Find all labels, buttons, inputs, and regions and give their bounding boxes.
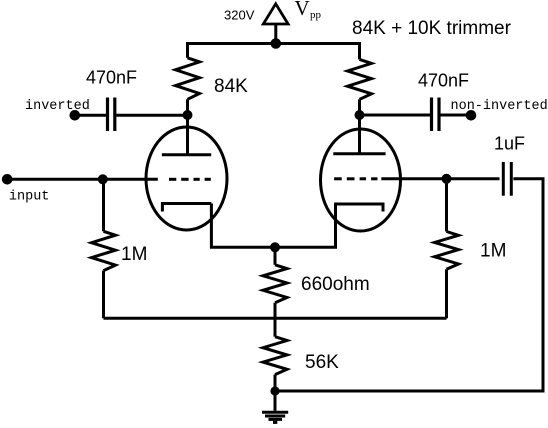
tube V2 cathode <box>334 204 383 212</box>
tube V1 envelope left <box>146 127 227 230</box>
svg-text:inverted: inverted <box>25 99 90 114</box>
tube V1 anode <box>186 115 189 155</box>
svg-text:56K: 56K <box>305 352 339 373</box>
node cathode tail junction <box>270 242 280 252</box>
svg-text:input: input <box>9 190 50 205</box>
resistor R 1M right <box>445 179 448 232</box>
tube V2 grid dashes <box>334 177 342 180</box>
node Vpp rail junction <box>271 38 282 49</box>
svg-text:470nF: 470nF <box>418 70 469 90</box>
svg-text:84K: 84K <box>214 76 248 97</box>
tube V1 cathode <box>162 204 211 212</box>
wire cap to non-inverted terminal <box>441 114 472 117</box>
wire V1 cathode to tail node <box>211 204 275 248</box>
resistor R 1M left <box>102 179 105 231</box>
wire top rail B+ <box>186 42 361 45</box>
wire inverted terminal to cap <box>75 114 106 117</box>
node right grid junction <box>442 174 452 184</box>
svg-text:V: V <box>295 0 310 20</box>
svg-text:1M: 1M <box>480 241 506 262</box>
tube V2 anode <box>358 115 361 154</box>
resistor R 660ohm <box>274 247 277 264</box>
resistor R 84K+10K right <box>358 44 361 60</box>
wire Vpp stem <box>274 24 277 44</box>
wire right plate node to cap <box>360 114 431 117</box>
node right anode junction <box>355 110 365 120</box>
svg-text:non-inverted: non-inverted <box>451 99 548 114</box>
svg-text:320V: 320V <box>224 8 255 23</box>
node input terminal <box>2 174 13 185</box>
resistor R 56K <box>274 318 277 336</box>
svg-text:1M: 1M <box>121 244 147 265</box>
node inverted output terminal <box>70 110 81 121</box>
wire 1uF to right edge and down to bottom <box>275 179 543 391</box>
capacitor C 1uF plates <box>502 162 505 196</box>
wire mid rail <box>104 317 447 320</box>
ground stem <box>274 391 277 411</box>
node left anode junction <box>183 110 193 120</box>
resistor R 84K left <box>186 44 189 58</box>
wire input line <box>7 178 158 181</box>
node input junction <box>98 174 108 184</box>
capacitor C 470nF right plates <box>430 98 433 132</box>
node ground junction <box>270 386 279 395</box>
wire cap to left plate node <box>116 114 187 117</box>
wire V2 grid to right node <box>381 177 499 180</box>
power symbol Vpp triangle <box>263 4 288 24</box>
svg-text:pp: pp <box>310 9 322 21</box>
wire V2 cathode to tail node <box>275 204 336 247</box>
tube V2 envelope right <box>321 129 401 231</box>
node non-inverted output terminal <box>466 110 477 121</box>
tube V1 grid dashes <box>169 178 176 181</box>
svg-text:470nF: 470nF <box>86 68 137 88</box>
capacitor C 470nF left plates <box>106 98 109 132</box>
svg-text:84K + 10K trimmer: 84K + 10K trimmer <box>352 18 512 39</box>
ground bars <box>262 411 288 414</box>
svg-text:660ohm: 660ohm <box>301 274 370 295</box>
svg-text:1uF: 1uF <box>494 133 525 153</box>
